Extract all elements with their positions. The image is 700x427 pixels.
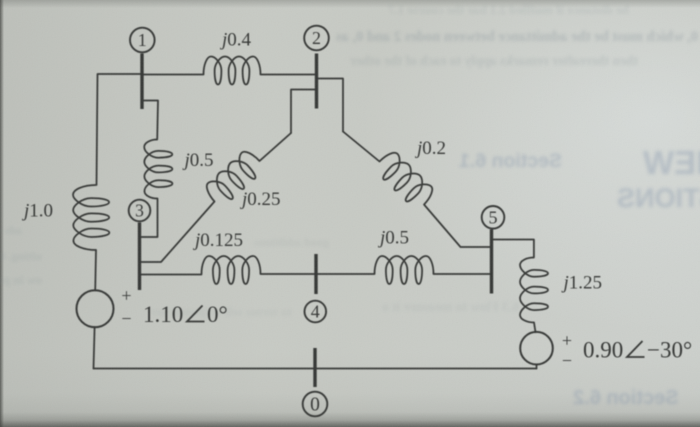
svg-text:j0.5: j0.5 <box>377 228 409 249</box>
inductor j0.5 vertical (bus1-bus3) <box>144 139 172 198</box>
bus bar 3 <box>138 223 141 291</box>
inductor j0.125 (bus3-bus4) <box>202 256 261 284</box>
node 5 <box>482 206 505 229</box>
svg-text:4: 4 <box>311 302 320 322</box>
svg-text:0: 0 <box>310 395 320 416</box>
node 2 <box>304 26 329 51</box>
wire j1.25 to bus5 stub <box>493 240 534 258</box>
wire source V2 top to j1.25 <box>534 323 536 333</box>
wire bus2 left stub down <box>291 90 315 134</box>
svg-text:2: 2 <box>312 28 321 48</box>
wire bus5 to j0.5 right <box>434 273 491 275</box>
wire diagonal bus2 to j0.25 <box>260 133 292 161</box>
wire diagonal bus2 to j0.2 <box>343 132 380 162</box>
wire diagonal j0.2 to bus5 stub <box>424 205 490 248</box>
svg-text:3: 3 <box>135 200 144 220</box>
wire bus4 to coils horizontal <box>261 273 375 275</box>
inductor j0.2 (bus2-bus5) <box>373 149 437 212</box>
svg-text:1.10: 1.10 <box>143 302 183 327</box>
svg-text:j0.2: j0.2 <box>414 138 446 159</box>
svg-text:j1.25: j1.25 <box>561 273 603 294</box>
svg-text:0°: 0° <box>207 302 228 327</box>
svg-text:−: − <box>562 351 572 371</box>
node 1 <box>130 28 155 53</box>
svg-text:+: + <box>121 286 131 306</box>
svg-text:−: − <box>121 309 131 329</box>
wire bottom rail (node 0 net) <box>94 368 537 370</box>
wire source V1 to bottom rail corner <box>94 327 95 369</box>
V1 angle symbol <box>187 306 205 322</box>
wire j0.4 to bus2 <box>261 74 316 76</box>
wire bus3 stub up to j0.5 vertical <box>141 199 158 238</box>
inductor j0.5 (bus4-bus5) <box>375 256 434 284</box>
bus bar 1 <box>140 54 143 110</box>
svg-text:5: 5 <box>489 207 498 227</box>
svg-text:0.90: 0.90 <box>583 338 623 363</box>
V2 angle symbol <box>627 341 645 357</box>
wire j1.0 to source V1 <box>94 250 97 291</box>
wire bus1 to j0.4 <box>143 74 204 76</box>
inductor j0.4 (bus1-bus2) <box>204 57 261 85</box>
inductor j0.25 (bus3-bus2) <box>202 148 266 209</box>
svg-text:j0.125: j0.125 <box>192 230 243 251</box>
node 0 <box>303 392 328 417</box>
voltage source V2 (0.90 at -30 deg) <box>520 332 553 365</box>
wire bottom rail to source V2 <box>536 364 538 368</box>
svg-text:−30°: −30° <box>647 338 692 363</box>
svg-text:j0.5: j0.5 <box>182 150 214 171</box>
svg-text:+: + <box>562 331 572 351</box>
wire diagonal j0.25 to bus3 stub <box>141 202 215 263</box>
bus bar 2 <box>315 54 318 109</box>
bus bar 4 <box>314 254 317 294</box>
inductor j1.25 (bus5 branch) <box>520 258 548 323</box>
wire bus2 right stub down <box>318 79 343 132</box>
svg-text:j1.0: j1.0 <box>21 201 53 222</box>
inductor j1.0 (bus1 branch) <box>73 185 110 250</box>
node 4 <box>305 301 327 323</box>
svg-text:1: 1 <box>138 30 147 50</box>
wire j0.125 to bus3 stub <box>141 274 202 276</box>
voltage source V1 (1.10 at 0 deg) <box>77 290 114 327</box>
bus bar 5 <box>490 230 493 294</box>
wire bus1 to left corner <box>97 74 144 185</box>
node 3 <box>129 200 151 222</box>
wire j0.5 vertical top to bus1 stub <box>144 101 159 140</box>
svg-text:j0.4: j0.4 <box>219 29 252 50</box>
svg-text:j0.25: j0.25 <box>239 189 281 210</box>
bus bar 0 (reference) <box>313 348 316 387</box>
